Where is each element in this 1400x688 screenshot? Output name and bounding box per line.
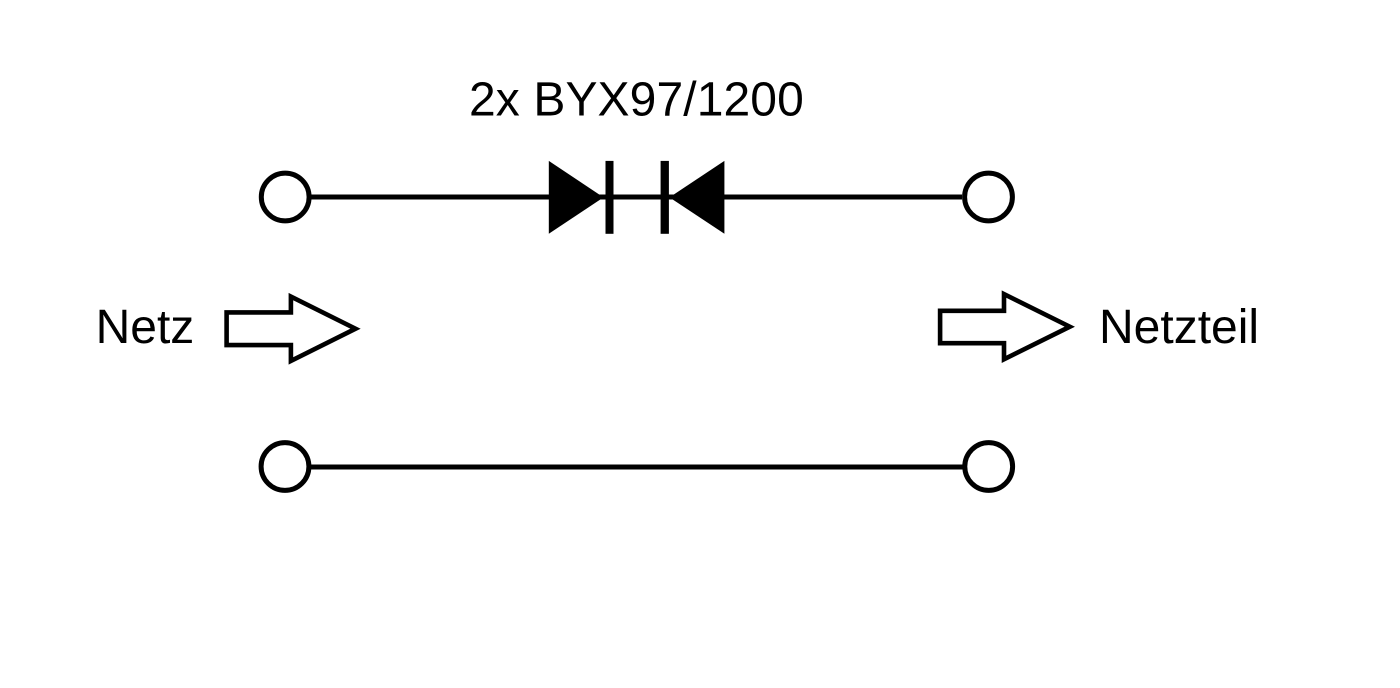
- arrow: output flow to Netzteil: [940, 294, 1070, 359]
- terminal: top-left input connector: [261, 173, 309, 221]
- arrow: input flow from Netz: [227, 297, 356, 361]
- diode D1 (left, anode left / cathode right): [549, 161, 614, 234]
- wire: bottom net from left terminal to right terminal: [310, 465, 963, 470]
- terminal: bottom-left connector: [261, 443, 309, 491]
- diode D2 (right, cathode left / anode right): [661, 161, 725, 234]
- svg-text:Netzteil: Netzteil: [1099, 301, 1259, 354]
- terminal: top-right output connector: [965, 173, 1013, 221]
- wire: top net from left terminal to right terminal: [311, 195, 962, 200]
- svg-text:Netz: Netz: [96, 301, 195, 354]
- svg-text:2x BYX97/1200: 2x BYX97/1200: [469, 74, 804, 127]
- terminal: bottom-right connector: [965, 443, 1013, 491]
